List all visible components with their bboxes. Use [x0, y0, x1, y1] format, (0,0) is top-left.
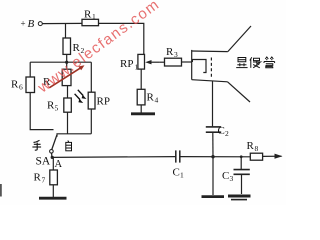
svg-text:R: R — [11, 79, 19, 91]
wire top rail from R1 to corner, down to RP1 — [99, 23, 144, 54]
switch SA pivot — [50, 150, 54, 154]
label SA — [36, 156, 51, 168]
svg-text:B: B — [28, 18, 35, 30]
potentiometer R red wiper arrow — [49, 65, 84, 88]
label R2 — [73, 42, 85, 55]
ground (C3) — [228, 195, 251, 198]
svg-text:2: 2 — [225, 129, 229, 138]
terminal +B — [38, 22, 42, 26]
svg-text:A: A — [55, 159, 63, 170]
wire node to RP branch — [90, 62, 92, 92]
node line horizontal — [30, 61, 91, 63]
resistor R5 — [64, 98, 72, 112]
capacitor C1 — [176, 150, 180, 162]
resistor R1 — [82, 19, 99, 25]
label R5 — [47, 100, 59, 113]
管 — [265, 57, 268, 59]
capacitor C3 — [234, 170, 250, 175]
svg-text:6: 6 — [19, 83, 23, 92]
svg-text:C: C — [218, 125, 225, 137]
svg-text:4: 4 — [155, 96, 159, 105]
wire bus junction to ground — [212, 157, 214, 195]
wire C2 to bus — [212, 132, 214, 157]
switch SA arm — [52, 135, 57, 150]
wire R3 to CRT grid — [182, 61, 193, 63]
label R3 — [166, 46, 178, 59]
wire R7 to ground — [52, 185, 54, 197]
wire R5 bottom to auto-contact rail — [67, 112, 69, 134]
svg-text:SA: SA — [36, 156, 51, 168]
wire RP1 bottom to R4 — [140, 69, 142, 89]
svg-text:+: + — [21, 19, 26, 29]
svg-text:3: 3 — [230, 174, 234, 183]
label RP — [97, 96, 110, 108]
svg-text:C: C — [222, 170, 229, 182]
junction dot C2 branch — [211, 155, 214, 158]
svg-text:R: R — [247, 140, 255, 152]
wire CRT cathode down to C2 — [212, 81, 214, 127]
ground (R7) — [39, 197, 67, 200]
scan edge artifact bottom-left — [0, 184, 2, 197]
ground (C2 branch) — [202, 195, 225, 198]
CRT envelope neck top — [192, 50, 228, 53]
node junction dot — [65, 61, 68, 64]
RP1 wiper arrow — [149, 61, 160, 63]
resistor R4 — [137, 89, 145, 105]
label R1 — [84, 9, 96, 22]
potentiometer R — [62, 69, 71, 85]
label R — [43, 76, 51, 88]
wire junction to R2 branch — [65, 24, 67, 39]
svg-text:1: 1 — [135, 63, 139, 72]
wire R7 branch — [52, 157, 54, 170]
svg-text:RP: RP — [120, 58, 133, 70]
photoresistor RP — [88, 92, 95, 109]
label R7 — [34, 172, 46, 185]
label RP1 — [120, 58, 139, 72]
label C3 — [222, 170, 234, 183]
potentiometer RP1 — [138, 54, 145, 69]
svg-text:RP: RP — [97, 96, 110, 108]
CRT grid electrode — [192, 60, 206, 73]
label R8 — [247, 140, 259, 153]
wire bus from node A to C1 — [52, 156, 175, 159]
wire node to R6 — [29, 62, 31, 77]
wire wiper to R3 — [160, 61, 165, 63]
CRT envelope left wall — [191, 50, 193, 80]
CRT top flare — [228, 26, 251, 52]
resistor R3 — [165, 58, 182, 66]
wire node to potentiometer R — [66, 62, 68, 69]
wire top rail from +B to R1 — [43, 22, 83, 24]
wire C3 to ground — [241, 174, 243, 194]
wire C3 branch from bus — [240, 157, 242, 169]
label A — [55, 159, 63, 170]
label 手 (manual) — [32, 140, 41, 150]
capacitor C2 — [206, 127, 221, 132]
wire auto contact rail with stub — [57, 134, 91, 137]
CRT bottom flare — [228, 82, 251, 102]
显 — [238, 58, 246, 62]
svg-text:3: 3 — [174, 50, 178, 59]
wire R6 bottom down and right to contact (manual) — [30, 93, 53, 130]
svg-text:C: C — [173, 167, 180, 179]
label 自 (auto) — [66, 141, 72, 151]
light arrows onto RP — [75, 90, 87, 103]
node A junction dot — [51, 156, 54, 159]
wire bus from C1 to C2 junction and R8 junction — [180, 156, 251, 158]
svg-text:1: 1 — [180, 171, 184, 180]
wire R to R5 — [67, 86, 69, 98]
svg-text:7: 7 — [42, 176, 46, 185]
resistor R2 — [63, 38, 71, 54]
label R4 — [147, 92, 159, 105]
svg-text:R: R — [84, 9, 92, 21]
resistor R8 — [250, 153, 262, 160]
label C1 — [173, 167, 185, 180]
像 — [250, 57, 252, 60]
svg-text:5: 5 — [55, 104, 59, 113]
wire RP bottom to auto-contact rail — [90, 109, 92, 134]
wire pivot to bus — [51, 153, 53, 157]
junction dot C3 branch — [240, 155, 243, 158]
CRT dashed electrode — [210, 58, 212, 79]
watermark www.elecfans.com — [34, 0, 163, 97]
label +B — [21, 18, 35, 30]
svg-text:8: 8 — [255, 144, 259, 153]
ground (R4) — [131, 112, 155, 115]
resistor R7 — [50, 170, 58, 185]
svg-text:R: R — [34, 172, 42, 184]
resistor R6 — [26, 77, 35, 93]
wire R2 bottom to node — [66, 54, 68, 62]
label 显像管 — [236, 57, 274, 68]
svg-text:R: R — [166, 46, 174, 58]
label R6 — [11, 79, 23, 92]
label C2 — [218, 125, 230, 138]
wire R4 to ground — [140, 105, 142, 113]
svg-text:1: 1 — [92, 12, 96, 21]
svg-text:R: R — [147, 92, 155, 104]
CRT envelope neck bottom — [192, 80, 228, 82]
wire R8 output with arrow — [263, 155, 282, 157]
